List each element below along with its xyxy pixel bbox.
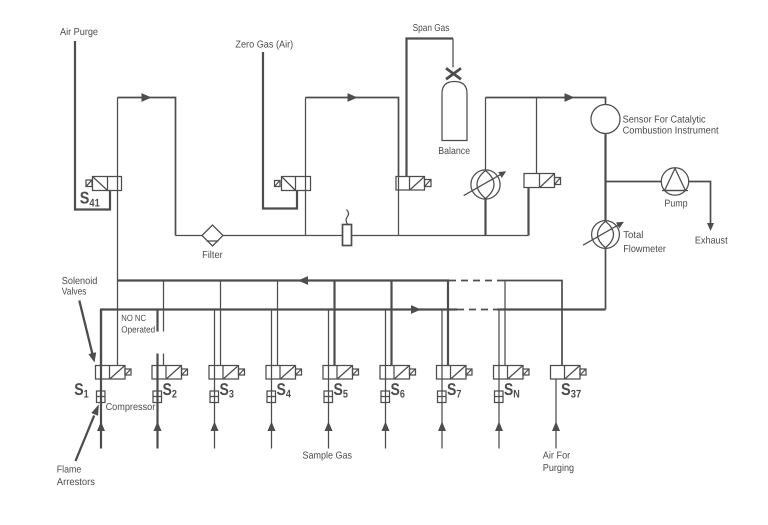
wire top branch 3 bbox=[486, 98, 606, 105]
wire span to balance valve bbox=[452, 39, 454, 68]
wire V2 trunk down to filter line bbox=[305, 98, 307, 236]
wire feed S5 from bus2 through valve to inlet bbox=[328, 310, 330, 449]
wire zero gas supply bbox=[263, 52, 297, 209]
solenoid valve S5 bbox=[323, 366, 359, 380]
bus1 upper manifold bbox=[118, 281, 563, 366]
svg-text:Flame: Flame bbox=[57, 465, 82, 476]
flame arrestor under S2 bbox=[153, 391, 162, 403]
wire V4 down to filter line bbox=[527, 188, 529, 236]
svg-text:Span Gas: Span Gas bbox=[413, 23, 450, 34]
filter bbox=[202, 225, 223, 246]
svg-text:Solenoid: Solenoid bbox=[62, 276, 98, 287]
svg-text:Pump: Pump bbox=[664, 199, 688, 210]
arrow inlet S4 bbox=[268, 422, 276, 432]
wire feed S3 from bus2 through valve to inlet bbox=[214, 310, 216, 449]
valve X on balance cylinder bbox=[446, 68, 461, 79]
solenoid valve SN bbox=[494, 366, 530, 380]
pump bbox=[661, 168, 688, 195]
arrow inlet S7 bbox=[438, 422, 446, 432]
svg-text:Valves: Valves bbox=[62, 287, 87, 298]
wire feed S4 from bus1 bbox=[277, 281, 279, 366]
svg-text:Purging: Purging bbox=[543, 463, 574, 474]
sensor circle bbox=[591, 105, 620, 134]
solenoid valve V4 bbox=[524, 174, 561, 188]
flame arrestor under S3 bbox=[210, 391, 219, 403]
callout arrow solenoid valves bbox=[79, 301, 96, 363]
wire flowmeter to bus2 bbox=[605, 248, 607, 309]
wire feed SN from bus2 through valve to inlet bbox=[498, 310, 500, 449]
wire feed SN from bus1 bbox=[504, 281, 506, 366]
svg-text:Operated: Operated bbox=[121, 325, 155, 335]
wire pump to exhaust bbox=[689, 182, 711, 226]
wire feed S2 from bus2 with NC break through valve to inlet bbox=[156, 310, 158, 449]
wire span gas supply bbox=[407, 39, 454, 177]
arrow right on top branch 3 bbox=[565, 93, 575, 102]
svg-text:Total: Total bbox=[623, 230, 643, 241]
svg-text:Combustion Instrument: Combustion Instrument bbox=[623, 126, 719, 137]
arrow exhaust down bbox=[707, 223, 714, 231]
wire V4 to top bbox=[536, 98, 538, 174]
wire S41 trunk down to S1 bbox=[117, 98, 119, 366]
arrow right on bus2 bbox=[411, 305, 421, 314]
svg-text:Compressor: Compressor bbox=[106, 402, 156, 413]
wire top branch 2 bbox=[306, 98, 399, 177]
arrow inlet S2 bbox=[154, 422, 162, 432]
solenoid valve V3 span bbox=[396, 177, 431, 191]
wire branch to pump bbox=[606, 181, 662, 183]
wire feed S6 from bus1 bbox=[390, 281, 392, 366]
arrow inlet S1 bbox=[97, 422, 105, 432]
solenoid valve S3 bbox=[209, 366, 245, 380]
solenoid valve S4 bbox=[266, 366, 302, 380]
balance cylinder bbox=[442, 82, 467, 141]
wire inlet S37 bbox=[555, 379, 557, 449]
wire air purge supply bbox=[75, 41, 110, 210]
solenoid valve S2 bbox=[152, 366, 188, 380]
arrow inlet S5 bbox=[325, 422, 333, 432]
bus2 lower manifold bbox=[101, 310, 606, 366]
callout arrow flame arrestors bbox=[76, 404, 99, 461]
flame arrestor under SN bbox=[495, 391, 504, 403]
flame arrestor under S5 bbox=[324, 391, 333, 403]
svg-text:NO NC: NO NC bbox=[121, 313, 146, 323]
total flowmeter bbox=[583, 221, 624, 249]
flame arrestor under S7 bbox=[438, 391, 447, 403]
arrow inlet S6 bbox=[382, 422, 390, 432]
wire feed S6 from bus2 through valve to inlet bbox=[385, 310, 387, 449]
wire feed S4 from bus2 through valve to inlet bbox=[271, 310, 273, 449]
solenoid valve V2 zero gas bbox=[275, 177, 311, 191]
svg-text:Filter: Filter bbox=[202, 250, 223, 261]
svg-text:Arrestors: Arrestors bbox=[57, 477, 95, 488]
flame arrestor under S4 bbox=[267, 391, 276, 403]
flame arrestor under S6 bbox=[381, 391, 390, 403]
solenoid valve S37 bbox=[551, 366, 587, 380]
solenoid valve S7 bbox=[437, 366, 473, 380]
wire feed S7 from bus2 through valve to inlet bbox=[441, 310, 443, 449]
svg-text:Balance: Balance bbox=[438, 146, 470, 157]
solenoid valve S1 bbox=[96, 366, 132, 380]
svg-text:Flowmeter: Flowmeter bbox=[623, 244, 666, 255]
humidifier tube bbox=[343, 210, 352, 246]
wire feed S5 from bus1 bbox=[333, 281, 335, 366]
arrow right on top branch 1 bbox=[142, 93, 152, 102]
svg-text:Air For: Air For bbox=[543, 451, 571, 462]
filter line bbox=[176, 235, 529, 237]
wire V3 trunk to filter line bbox=[398, 177, 400, 236]
wire feed S1 from bus2 through valve to inlet bbox=[100, 310, 102, 449]
wire top branch 1 bbox=[118, 98, 176, 236]
solenoid valve S41 bbox=[86, 177, 122, 191]
svg-text:Zero Gas (Air): Zero Gas (Air) bbox=[235, 39, 293, 50]
wire feed S2 from bus1 with NO break bbox=[163, 281, 165, 366]
wire feed S7 from bus1 bbox=[447, 281, 449, 366]
wire sensor trunk bbox=[604, 134, 606, 222]
svg-text:Sample Gas: Sample Gas bbox=[303, 451, 353, 462]
wire feed S3 from bus1 bbox=[220, 281, 222, 366]
svg-text:Exhaust: Exhaust bbox=[695, 236, 728, 247]
arrow inlet S3 bbox=[211, 422, 219, 432]
arrow left on bus1 bbox=[298, 276, 308, 285]
svg-text:Sensor For Catalytic: Sensor For Catalytic bbox=[623, 115, 706, 126]
solenoid valve S6 bbox=[380, 366, 416, 380]
throttle valve mid bbox=[464, 98, 507, 236]
svg-text:Air Purge: Air Purge bbox=[60, 27, 98, 38]
flame arrestor under S1 bbox=[97, 391, 106, 403]
arrow right on top branch 2 bbox=[348, 93, 358, 102]
arrow inlet S37 bbox=[552, 422, 560, 432]
arrow inlet SN bbox=[495, 422, 503, 432]
